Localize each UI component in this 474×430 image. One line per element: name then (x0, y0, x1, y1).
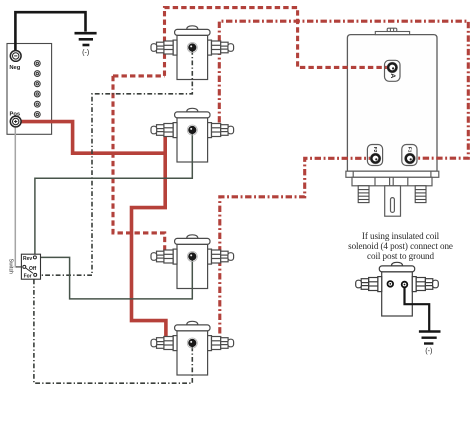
solenoid S4 (151, 321, 234, 375)
insulated 4-post solenoid (example) (356, 262, 439, 316)
switch terminal Rev (33, 256, 36, 259)
wire: battery negative to chassis ground (black) (15, 12, 85, 50)
motor terminal F2 (370, 153, 380, 163)
chassis ground symbol (top) (75, 33, 97, 45)
motor terminal plate F1 (402, 145, 417, 166)
chassis ground symbol (bottom right) (419, 332, 441, 344)
terminal: S3 coil post (187, 252, 197, 262)
terminal: S4 coil post (187, 338, 197, 348)
switch lever (26, 268, 33, 273)
panel terminal Pos (10, 116, 21, 127)
wire: red dashed armature line (battery solenoids S1/S3 left posts to motor A) (113, 8, 388, 259)
switch common stub (16, 266, 23, 268)
winch motor U1 body (347, 35, 437, 172)
solenoid S1 (151, 26, 234, 80)
panel terminal Neg (10, 51, 21, 62)
motor mounting stud right (415, 186, 426, 203)
svg-text:F2: F2 (373, 147, 378, 153)
wire: S1 coil to switch FOR (black dash-dot) (37, 50, 193, 275)
motor center mounting tab (385, 186, 401, 216)
solenoid S2 (151, 108, 234, 162)
svg-text:A: A (389, 73, 396, 78)
motor mounting stud left (358, 186, 369, 203)
svg-text:If using insulated coil: If using insulated coil (362, 231, 440, 241)
wire: example solenoid coil post to ground (black) (405, 286, 430, 331)
wire: S3 coil to switch REV (dark solid) (37, 257, 193, 299)
switch terminal For (34, 273, 37, 276)
wire: S2 coil to switch REV (dark solid) (35, 133, 192, 256)
motor terminal plate A (385, 60, 401, 81)
example solenoid coil post left (388, 281, 394, 287)
svg-text:Pos: Pos (9, 111, 20, 117)
battery remote socket panel (7, 44, 52, 135)
svg-text:(-): (-) (425, 346, 432, 355)
panel pin sockets column (34, 61, 40, 118)
svg-text:F1: F1 (408, 147, 413, 153)
svg-text:Neg: Neg (9, 65, 20, 71)
motor bottom flange (346, 171, 439, 186)
svg-text:For: For (24, 274, 32, 280)
example solenoid coil post right (402, 282, 408, 288)
solenoid S3 (151, 235, 234, 289)
wire: red solid battery positive feed to S2/S4 left posts (21, 122, 166, 348)
switch SW1 box (21, 254, 40, 279)
svg-text:Rev: Rev (23, 256, 32, 262)
terminal: S2 coil post (187, 125, 197, 135)
svg-text:solenoid (4 post) connect one: solenoid (4 post) connect one (348, 241, 453, 251)
svg-text:coil post to ground: coil post to ground (367, 251, 434, 261)
wire: red dash-dot line solenoid right posts S1/S2 to motor F1 (219, 21, 468, 158)
svg-text:Switch: Switch (7, 259, 13, 274)
motor top cap (375, 28, 409, 34)
wire: grey wire battery positive to switch common (15, 128, 16, 267)
svg-text:(-): (-) (82, 48, 89, 57)
motor terminal A (387, 62, 397, 72)
wire: S4 coil to switch FOR (black dash-dot) (34, 280, 192, 384)
wire: red dash-dot line solenoid right posts S3/S4 to motor F2 (220, 158, 372, 347)
terminal: S1 coil post (187, 43, 197, 53)
motor terminal plate F2 (367, 145, 382, 166)
motor terminal F1 (405, 153, 415, 163)
switch common terminal (23, 265, 26, 268)
